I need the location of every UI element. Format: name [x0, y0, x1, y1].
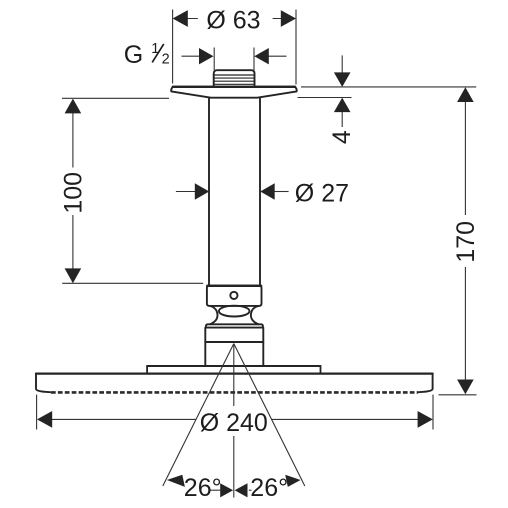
G1/2 left arrow tail [182, 55, 200, 57]
top plate top edge [147, 365, 320, 367]
plate top edge [173, 86, 295, 88]
ceiling escutcheon plate [171, 87, 297, 98]
dim170 bottom extension line [439, 394, 477, 396]
shower head top edge [36, 373, 433, 375]
ceiling line right [301, 86, 476, 88]
svg-text:2: 2 [162, 51, 170, 67]
dia27 right tail [274, 191, 288, 193]
G1/2 right extension line [253, 48, 255, 71]
angle26 left inner tail [210, 489, 221, 491]
dia240 left arrowhead [37, 411, 52, 428]
angle26 left inner arrowhead [220, 483, 233, 497]
dia27 left tail [176, 191, 195, 193]
dim170 up arrowhead [457, 87, 474, 102]
dim170 down arrowhead [457, 380, 474, 395]
dim100 line upper [72, 113, 74, 168]
spray face dashes [51, 391, 418, 394]
dim100 bottom extension line [62, 282, 203, 284]
fan centerline upper segment [233, 344, 235, 406]
angle26 left outer arrowhead [167, 475, 185, 487]
label G1/2 fraction slash [152, 44, 164, 63]
svg-text:26°: 26° [250, 474, 288, 502]
dia27 left arrowhead [195, 183, 209, 199]
dia63 left arrowhead [173, 10, 188, 27]
lower block [205, 342, 263, 366]
G1/2 right arrow tail [268, 55, 287, 57]
shower head right edge [418, 374, 432, 393]
G1/2 right arrowhead [254, 48, 268, 64]
svg-text:G: G [124, 41, 143, 69]
svg-text:26°: 26° [184, 474, 222, 502]
plate bottom extension left [62, 97, 169, 99]
thread ribs [214, 75, 255, 84]
svg-text:1: 1 [151, 41, 159, 57]
fan left diagonal [163, 344, 234, 486]
dia240 right arrowhead [418, 411, 433, 428]
dim4 lower tail [341, 112, 343, 127]
dim4 up arrowhead [334, 98, 351, 113]
clamp block [205, 328, 263, 342]
dim4 down arrowhead [334, 72, 351, 87]
dia63 left extension line [172, 10, 174, 84]
dim170 line lower [464, 267, 466, 380]
dim100 down arrowhead [65, 268, 82, 283]
dim100 up arrowhead [65, 99, 82, 114]
pipe right wall [259, 98, 261, 286]
dia63 dimension line stubs [188, 18, 282, 20]
dia63 right arrowhead [281, 10, 296, 27]
collar block [207, 286, 262, 306]
dia240 dimension line segments [52, 418, 419, 420]
svg-text:100: 100 [59, 172, 87, 214]
top mounting plate [147, 366, 320, 374]
dia27 right arrowhead [260, 183, 274, 199]
spray fan lines [163, 344, 305, 498]
collar screw hole [230, 292, 237, 299]
plate bottom extension right [298, 97, 352, 99]
angle26 right outer arrowhead [285, 475, 300, 487]
angle26 right inner tail [249, 489, 252, 491]
clamp ring band [206, 324, 263, 327]
ball joint left flank [210, 306, 218, 324]
dim4 upper tail [341, 55, 343, 72]
pipe left wall [208, 98, 210, 286]
fan centerline lower segment [233, 436, 235, 498]
shower head left edge [36, 374, 50, 393]
dia63 right extension line [295, 10, 297, 85]
svg-text:Ø 27: Ø 27 [295, 179, 349, 207]
G1/2 left extension line [213, 48, 215, 71]
collar top edge [207, 285, 261, 287]
svg-text:4: 4 [328, 130, 356, 144]
dim100 line lower [72, 215, 74, 270]
svg-text:Ø 240: Ø 240 [200, 409, 268, 437]
fan right diagonal [234, 344, 305, 486]
G1/2 left arrowhead [199, 48, 214, 64]
dim170 line upper [464, 102, 466, 216]
angle26 right inner arrowhead [235, 483, 248, 497]
svg-text:Ø 63: Ø 63 [206, 6, 260, 34]
dia240 right extension line [432, 395, 434, 430]
ball joint right flank [251, 306, 259, 324]
thread connector G1/2 [214, 70, 255, 86]
svg-text:170: 170 [452, 221, 480, 263]
ball [219, 306, 250, 317]
dia240 left extension line [36, 395, 38, 430]
